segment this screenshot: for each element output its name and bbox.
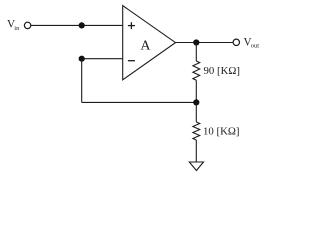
op-amp plus input marking	[128, 22, 135, 29]
svg-text:in: in	[14, 25, 20, 32]
wire to op-amp inverting input	[82, 58, 123, 60]
junction output node	[193, 39, 199, 45]
junction node at + input wire	[79, 22, 85, 28]
svg-text:out: out	[251, 43, 260, 50]
terminal Vin	[24, 22, 30, 28]
resistor R2	[193, 122, 200, 140]
wire output node to resistor R1	[195, 43, 197, 62]
wire R2 to ground	[195, 140, 197, 162]
wire R1 to middle node	[195, 80, 197, 102]
op-amp minus input marking	[128, 60, 135, 62]
wire feedback horizontal segment	[82, 101, 197, 103]
terminal Vout	[233, 39, 239, 45]
svg-text:90 [KΩ]: 90 [KΩ]	[204, 65, 241, 77]
wire Vin to op-amp noninverting input	[31, 24, 123, 26]
wire op-amp output to Vout terminal	[176, 42, 234, 44]
junction node at - input wire	[79, 56, 85, 62]
svg-text:A: A	[140, 39, 151, 54]
resistor R1	[193, 61, 200, 80]
wire feedback vertical segment	[81, 59, 83, 103]
junction middle node	[193, 99, 199, 105]
label Vout	[244, 36, 260, 49]
svg-text:10 [KΩ]: 10 [KΩ]	[203, 126, 240, 138]
label Vin	[7, 19, 20, 32]
wire middle node to resistor R2	[195, 102, 197, 122]
op-amp A	[123, 6, 176, 80]
ground	[189, 162, 203, 171]
